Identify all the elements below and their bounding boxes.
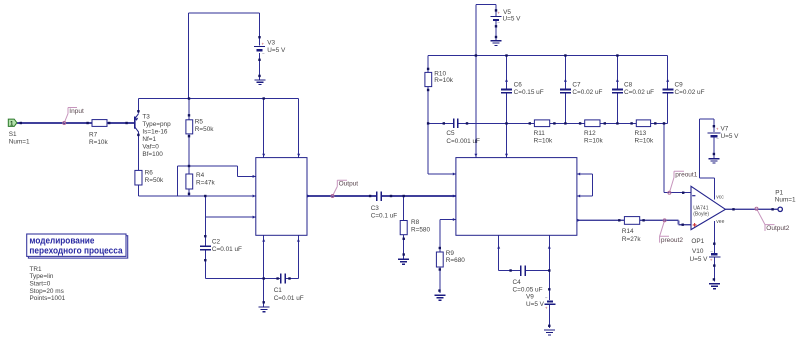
svg-text:U=5 V: U=5 V — [267, 47, 286, 54]
svg-text:Num=1: Num=1 — [9, 139, 30, 146]
svg-text:Stop=20 ms: Stop=20 ms — [30, 288, 64, 295]
svg-text:C1: C1 — [274, 287, 283, 294]
svg-text:U=5 V: U=5 V — [690, 256, 709, 263]
svg-text:Output2: Output2 — [766, 225, 790, 232]
svg-text:Input: Input — [69, 108, 84, 115]
svg-text:C2: C2 — [212, 239, 221, 246]
svg-text:Nf=1: Nf=1 — [142, 136, 156, 143]
svg-text:V9: V9 — [526, 294, 534, 301]
svg-text:+: + — [497, 10, 500, 15]
svg-text:Type=pnp: Type=pnp — [142, 121, 171, 128]
svg-text:R=10k: R=10k — [89, 139, 108, 146]
svg-text:U=5 V: U=5 V — [721, 133, 740, 140]
svg-text:C=0.02 uF: C=0.02 uF — [624, 89, 654, 96]
svg-text:R7: R7 — [89, 131, 98, 138]
svg-text:R12: R12 — [584, 130, 596, 137]
svg-text:C8: C8 — [624, 81, 633, 88]
svg-text:R=580: R=580 — [411, 227, 430, 234]
svg-text:Start=0: Start=0 — [30, 280, 51, 287]
svg-text:C4: C4 — [513, 279, 522, 286]
svg-text:+: + — [710, 258, 713, 263]
svg-text:C=0.01 uF: C=0.01 uF — [212, 246, 242, 253]
svg-text:U=5 V: U=5 V — [503, 15, 522, 22]
svg-text:R=680: R=680 — [446, 257, 465, 264]
svg-text:T3: T3 — [142, 113, 150, 120]
svg-text:−: − — [545, 296, 548, 301]
svg-text:Vaf=0: Vaf=0 — [142, 143, 159, 150]
svg-text:vcc: vcc — [716, 195, 724, 201]
svg-text:R=10k: R=10k — [434, 77, 453, 84]
svg-text:R5: R5 — [195, 119, 204, 126]
svg-text:preout2: preout2 — [661, 237, 683, 244]
svg-text:C5: C5 — [446, 130, 455, 137]
svg-text:R13: R13 — [635, 130, 647, 137]
svg-text:+: + — [716, 127, 719, 132]
svg-text:R14: R14 — [622, 228, 634, 235]
svg-text:R6: R6 — [145, 170, 154, 177]
svg-text:S1: S1 — [9, 131, 17, 138]
svg-text:Output: Output — [339, 181, 359, 188]
svg-text:Is=1e-16: Is=1e-16 — [142, 128, 167, 135]
svg-text:C3: C3 — [371, 205, 380, 212]
svg-text:V10: V10 — [692, 248, 704, 255]
svg-text:C6: C6 — [514, 81, 523, 88]
svg-text:vee: vee — [716, 219, 724, 225]
svg-text:R=47k: R=47k — [196, 179, 215, 186]
svg-text:C9: C9 — [675, 81, 684, 88]
svg-text:+: + — [545, 305, 548, 310]
svg-text:C=0.15 uF: C=0.15 uF — [514, 89, 544, 96]
svg-text:Bf=100: Bf=100 — [142, 151, 163, 158]
svg-text:R=50k: R=50k — [145, 177, 164, 184]
svg-text:C7: C7 — [572, 81, 581, 88]
svg-text:R=27k: R=27k — [622, 236, 641, 243]
svg-text:Points=1001: Points=1001 — [30, 295, 66, 302]
svg-text:−: − — [716, 136, 719, 141]
svg-text:C=0.001 uF: C=0.001 uF — [446, 138, 480, 145]
svg-text:U=5 V: U=5 V — [526, 301, 545, 308]
svg-text:Type=lin: Type=lin — [30, 273, 54, 280]
svg-text:+: + — [262, 42, 265, 47]
svg-text:C=0.1 uF: C=0.1 uF — [371, 213, 398, 220]
svg-text:V7: V7 — [721, 125, 729, 132]
svg-text:OP1: OP1 — [691, 238, 704, 245]
svg-text:C=0.01 uF: C=0.01 uF — [274, 295, 304, 302]
svg-text:R4: R4 — [196, 172, 205, 179]
svg-text:−: − — [497, 20, 500, 25]
svg-text:TR1: TR1 — [30, 266, 43, 273]
svg-text:V3: V3 — [267, 40, 275, 47]
svg-text:−: − — [710, 249, 713, 254]
svg-text:R8: R8 — [411, 219, 420, 226]
svg-text:C=0.02 uF: C=0.02 uF — [675, 89, 705, 96]
svg-text:R=50k: R=50k — [195, 126, 214, 133]
svg-text:переходного процесса: переходного процесса — [29, 246, 123, 257]
svg-text:P1: P1 — [775, 190, 783, 197]
svg-text:R11: R11 — [534, 130, 546, 137]
svg-text:C=0.02 uF: C=0.02 uF — [572, 89, 602, 96]
svg-text:UA741: UA741 — [693, 205, 709, 211]
svg-text:R=10k: R=10k — [534, 138, 553, 145]
svg-text:R=10k: R=10k — [635, 138, 654, 145]
svg-text:Num=1: Num=1 — [775, 197, 796, 204]
svg-text:preout1: preout1 — [675, 172, 697, 179]
svg-text:R=10k: R=10k — [584, 138, 603, 145]
svg-text:−: − — [262, 51, 265, 56]
svg-text:(Boyle): (Boyle) — [693, 211, 709, 217]
